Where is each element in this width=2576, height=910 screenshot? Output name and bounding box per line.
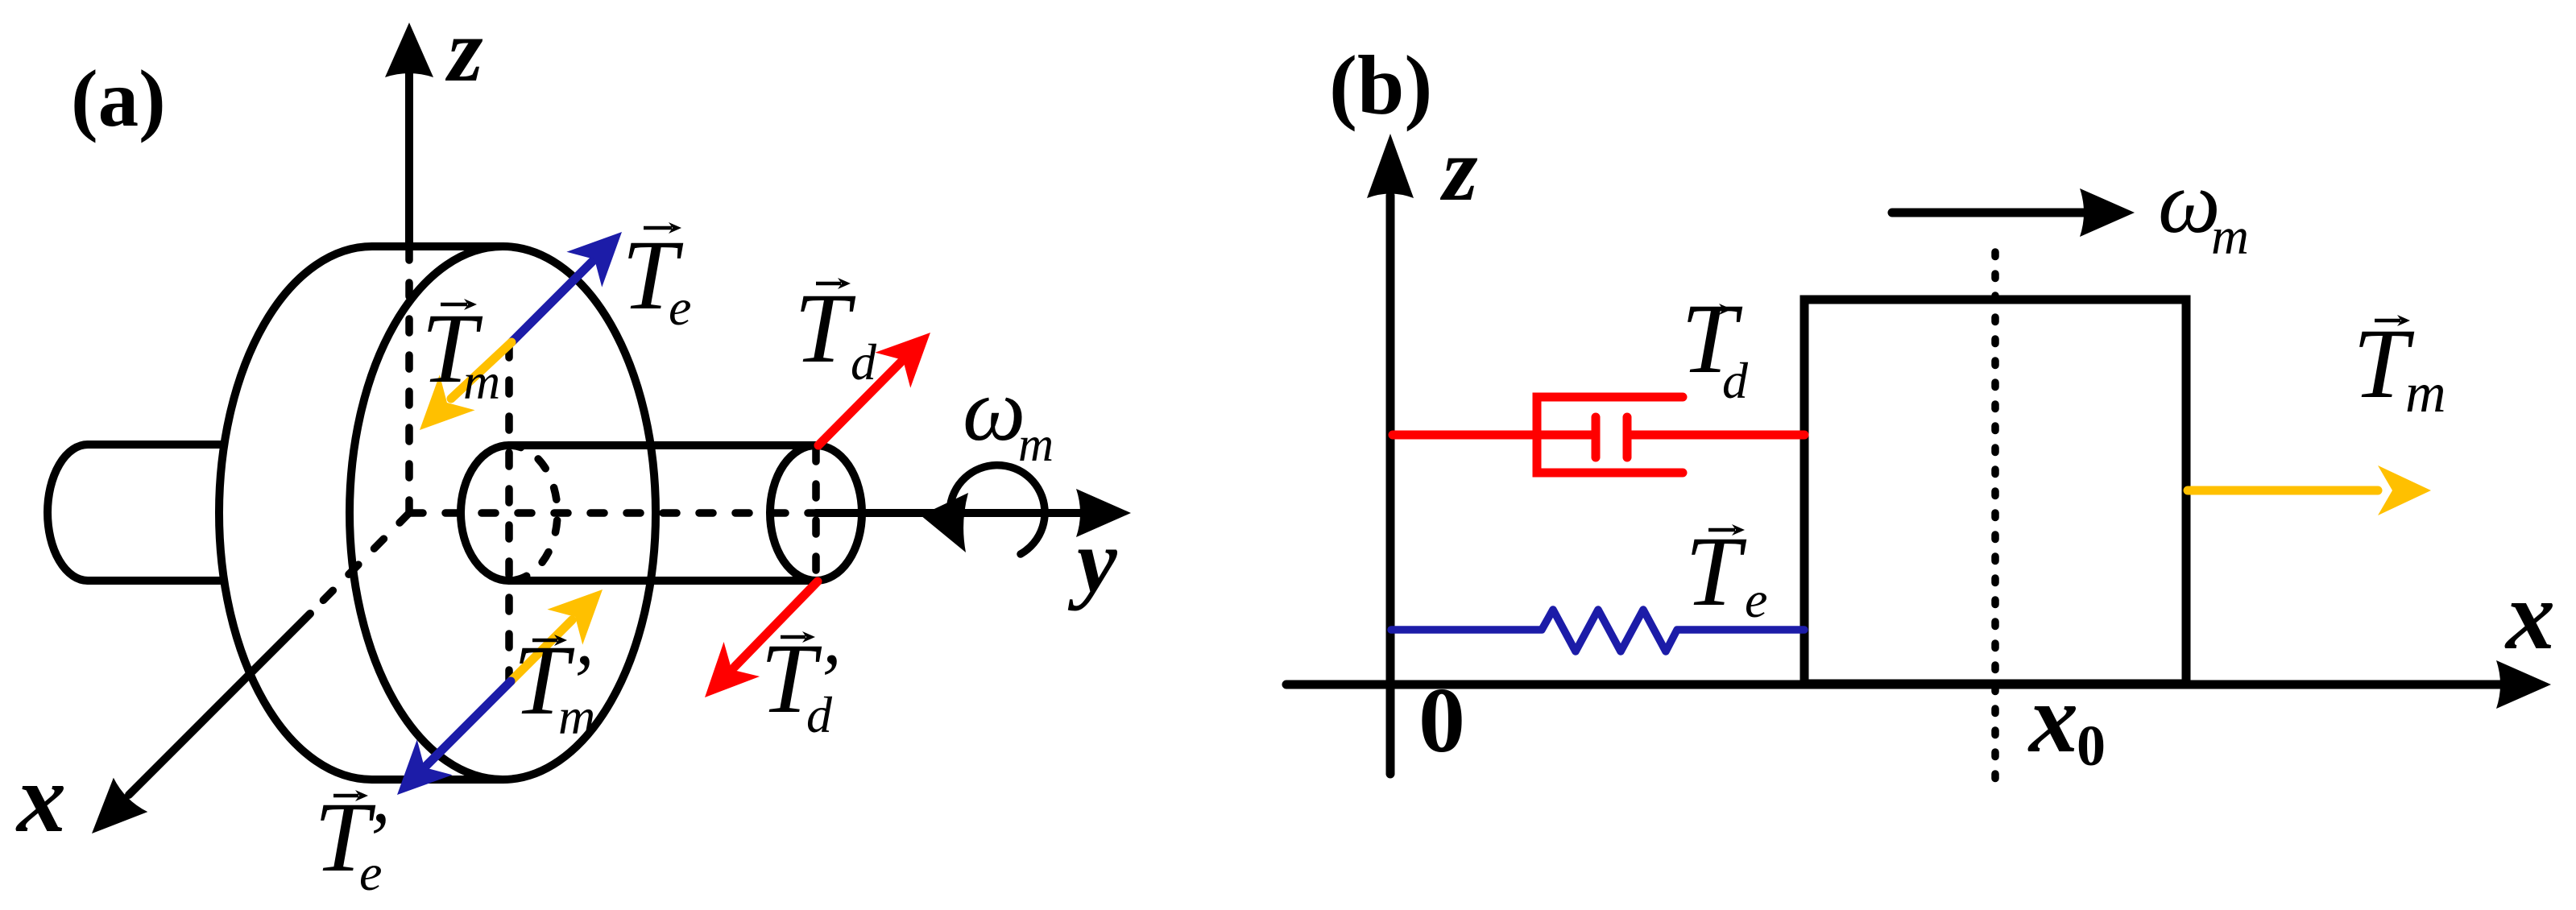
- svg-text:m: m: [1018, 418, 1054, 472]
- svg-text:(b): (b): [1329, 38, 1432, 132]
- svg-text:x: x: [15, 744, 66, 853]
- svg-text:e: e: [669, 279, 691, 336]
- svg-text:e: e: [1745, 571, 1767, 628]
- svg-text:m: m: [463, 353, 500, 410]
- svg-text:m: m: [558, 688, 595, 745]
- svg-text:d: d: [851, 333, 877, 391]
- svg-text:z: z: [445, 1, 483, 101]
- svg-text:x: x: [2504, 561, 2555, 670]
- svg-text:m: m: [2405, 362, 2446, 424]
- svg-text:m: m: [2211, 208, 2249, 266]
- svg-text:d: d: [806, 686, 833, 743]
- svg-text:z: z: [1439, 120, 1478, 220]
- svg-text:(a): (a): [71, 53, 166, 143]
- svg-text:0: 0: [1418, 669, 1465, 772]
- svg-text:T: T: [794, 273, 856, 383]
- svg-text:d: d: [1722, 352, 1749, 409]
- svg-text:x: x: [2027, 664, 2078, 773]
- svg-text:ω: ω: [963, 361, 1025, 460]
- svg-text:e: e: [359, 844, 382, 901]
- svg-text:0: 0: [2077, 714, 2106, 778]
